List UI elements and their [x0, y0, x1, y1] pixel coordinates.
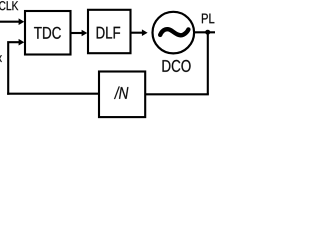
arrowhead into TDC (CLK) [19, 18, 25, 25]
arrowhead into DLF [82, 30, 88, 37]
wire divider to left leg [7, 93, 99, 95]
wire DCO output [195, 31, 216, 33]
arrowhead into DCO [142, 29, 148, 36]
arrowhead into TDC (feedback) [19, 39, 25, 46]
wire feedback into TDC [8, 42, 20, 94]
label DCO [163, 60, 191, 72]
block TDC [25, 11, 71, 55]
label /N divide-by-N [114, 86, 128, 98]
block DLF [88, 10, 131, 53]
wire TDC to DLF [71, 32, 83, 34]
label DLF [97, 27, 120, 39]
wire CLK input [0, 21, 20, 23]
junction node dot [205, 30, 210, 35]
divider block /N [99, 72, 145, 118]
clipped label fragment at left edge [0, 55, 2, 62]
wire DLF to DCO [131, 32, 143, 34]
label TDC [34, 27, 61, 39]
label PLL output (clipped at right) [202, 14, 221, 24]
wire output node to divider [146, 93, 209, 95]
sine tilde symbol inside DCO [160, 29, 188, 35]
label CLK input (clipped at left) [0, 1, 18, 10]
oscillator DCO circle [153, 12, 195, 54]
wire feedback down from output node [207, 32, 209, 94]
